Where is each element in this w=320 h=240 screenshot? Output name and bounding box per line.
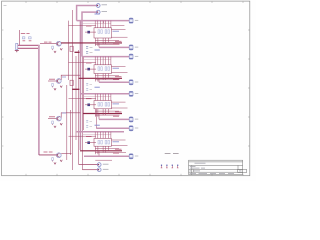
IC U4 pin stubs [95,132,111,139]
wire below U2 a [95,75,119,77]
wire thick jumper 1 [75,51,80,53]
resistor R22 [70,80,73,85]
wire U1 upper right [111,25,124,27]
Q4 collector wire [61,153,71,155]
vertical stubs below U1 [95,38,108,46]
resistor array RN1B [105,30,109,34]
port flag PF1 [161,165,163,168]
output net 3b (pale) [95,109,97,129]
P1 label [102,4,108,6]
P4 label [103,168,109,170]
net label text VIN [21,32,30,34]
net rail 3 (pale) [80,93,129,95]
net rail 4 (pale) [77,131,124,133]
wire U3 right pin B [111,107,127,109]
blue net label rail 2 [95,49,100,51]
connector J9 power input [15,43,19,52]
Q2 collector wire [61,75,80,80]
blue net label rail 4 [95,124,100,126]
P3 label [103,163,109,165]
frame tick marks [2,1,250,176]
resistor R20 emitter [52,83,54,87]
wire U3 right pin [111,101,125,103]
capacitor C gap at 120.5 [86,121,88,123]
wire below U4 b [96,152,127,154]
wire below U4 c [95,159,112,161]
diode D4 polarity mark [87,141,90,144]
blue net label rail 3 [95,86,100,88]
connector J7 [129,126,133,131]
blue label right U1 [113,30,120,32]
wire U2 right pin B [111,72,127,74]
J3 label [135,55,139,57]
J1 label [135,19,139,21]
capacitor C gap at 125.6 [86,126,88,128]
sheet zone label [4,5,7,7]
resistor array RN4A [98,140,102,144]
wire below U4 thick dark [80,150,122,152]
wire U4 right pin [111,139,125,141]
resistor array RN4B [105,140,109,144]
resistor R40 emitter [52,158,54,162]
wire U1 right pin [111,28,125,30]
connector J8 [129,154,133,159]
IC U2 pin stubs [95,57,111,65]
connector J5 [129,91,133,96]
resistor array RN3A [98,103,102,107]
connector J6 [129,117,133,122]
wire bus to U4 left pin [69,135,97,137]
wire below U3 b [96,114,120,116]
P2 label [102,11,108,13]
node VIN vertical stub [19,30,21,45]
wire power feed B [18,47,39,49]
Q2 base wire [48,80,56,82]
blue label right U4 [113,141,120,143]
diode D2 polarity mark [87,68,90,71]
ground arrow Q3 emitter [54,126,56,128]
connector J4 [129,80,133,85]
ground arrow Q1 emitter [54,51,56,53]
J4 label [135,81,139,83]
wire thick jumper 2 [72,88,79,90]
connector J2 [129,45,133,50]
output net 4 (pale) [84,155,129,157]
capacitor C1 [86,47,88,49]
bus net thick pale A [79,21,81,150]
red net text output 4 [113,152,119,154]
bus vertical net lines [67,10,84,170]
wire below U1 a [95,39,119,41]
net rail 2 (pale) [82,56,129,58]
Q1 base wire [40,43,56,45]
red net text output 2 [113,78,119,80]
wire U4 right pin B [111,144,127,146]
wire below U1 b [96,43,120,45]
ground arrow Q2 collector [60,86,62,88]
corner to output 1 [98,43,100,48]
output net 3 (pale) [99,118,129,120]
transistor Q4 [56,153,61,158]
IC U3 pin stubs [95,94,111,101]
wire rail aux 2 [82,59,111,61]
resistor array RN1A [98,30,102,34]
wire to P3 [79,164,98,166]
C gap label [90,83,93,85]
fuse F1 [22,37,25,41]
Q4 base net text [44,151,48,153]
red ref text U1 [86,25,92,27]
resistor array RN3B [105,103,109,107]
J2 label [135,46,139,48]
ground arrow Q3 collector [60,123,62,125]
title block sheet box [238,169,247,172]
wire below U3 thick dark [83,113,122,115]
wire bus to U2 left pin [69,62,97,64]
wire bus to Q4 base [39,154,57,156]
vertical stubs below U4 [95,146,108,154]
wire below U3 a [95,110,119,112]
bus net corner P1 [77,6,97,21]
fuse F2 [29,37,32,41]
wire D1 to U1 [85,31,96,33]
resistor R10 emitter [52,46,54,50]
red net text output 3 [113,115,119,117]
C2 label [90,51,93,53]
wire D3 to U3 [85,104,96,106]
output net 2 (pale) [99,81,129,83]
title block text [190,163,242,173]
red text on thick 2 [115,76,122,78]
diode D1 polarity mark [87,31,90,34]
wire below U1 thick dark [61,42,122,44]
resistor R21 [70,46,73,51]
capacitor C gap at 83.5 [86,84,88,86]
resistor array RN2A [98,67,102,71]
test point P4 [97,168,101,172]
vertical stubs below U3 [95,109,108,117]
transistor Q2 [56,79,61,84]
annotation text [165,153,179,155]
Q3 base net text [49,116,55,118]
wire rail aux 3 [82,96,111,98]
bus label text 2 [62,112,66,114]
title block [189,160,243,174]
C gap label [90,120,93,122]
J8 label [135,155,139,157]
wire below U4 a [95,148,119,150]
Q2 base net text [49,78,55,80]
wire bus to U1 left pin [69,25,97,27]
ground arrow Q1 collector [60,48,62,50]
blue label right U3 [113,103,120,105]
wire power feed A [18,44,40,46]
wire to P4 [82,169,97,171]
output net 1 (pale) [99,46,129,48]
net rail 1 (pale) [77,20,130,22]
C1 label [90,46,93,48]
blue net label rail 1 [95,13,100,15]
Q3 collector wire [61,113,80,118]
junction rail1 [97,20,98,21]
J7 label [135,127,139,129]
Q1 base net text [44,41,48,43]
ground arrow Q4 collector [60,160,62,162]
sheet border frame [2,1,250,176]
test point P2 [96,10,100,14]
bus label text 1 [62,76,66,78]
IC U3 body [94,101,111,109]
ground arrow Q4 emitter [54,162,56,164]
red text on thick 3 [115,111,122,113]
port flag PF4 [177,165,179,168]
Q4 base wire [39,154,57,156]
red ref text U2 [86,62,92,64]
vertical stubs below U2 [95,74,108,82]
red ref text U3 [86,98,92,100]
blue label right U2 [113,67,120,69]
IC U1 pin stubs [95,21,111,28]
IC U4 body [94,138,111,146]
J6 label [135,118,139,120]
port flag PF3 [172,165,174,168]
test point P3 [97,163,101,167]
wire U1 right pin B [111,36,127,38]
red text on thick 4 [115,148,122,150]
C gap label [90,125,93,127]
wire rail aux 4 [82,134,111,136]
J5 label [135,93,139,95]
wire D2 to U2 [85,68,96,70]
resistor array RN2B [105,67,109,71]
connector J1 [129,18,133,23]
red ref text U4 [86,136,92,138]
IC U1 body [94,28,111,38]
wire U2 right pin [111,65,125,67]
resistor R30 emitter [52,121,54,125]
capacitor C2 [86,52,88,54]
Q1 collector wire thick [61,42,83,44]
test point P1 [96,4,100,8]
red net text output 1 [113,43,119,45]
corner to output 3 [98,114,100,120]
red text on thick 1 [115,40,122,42]
transistor Q1 [56,41,61,46]
bus net corner P2 [82,12,96,57]
wire rail aux 1 [82,23,111,25]
wire D4 to U4 [85,142,96,144]
corner to output 2 [98,78,100,82]
ground arrow Q2 emitter [54,88,56,90]
wire bus to U3 left pin [69,97,97,99]
bus main vertical [38,45,40,155]
corner to output 4 [98,151,100,157]
wire below U2 thick dark [78,77,122,79]
port flag PF2 [166,165,168,168]
diode D3 polarity mark [87,104,90,107]
wire below U2 b [96,79,120,81]
Q3 base wire [48,118,56,120]
transistor Q3 [56,116,61,121]
IC U2 body [94,65,111,74]
C gap label [90,88,93,90]
connector J3 [129,54,133,59]
capacitor C gap at 88.6 [86,89,88,91]
